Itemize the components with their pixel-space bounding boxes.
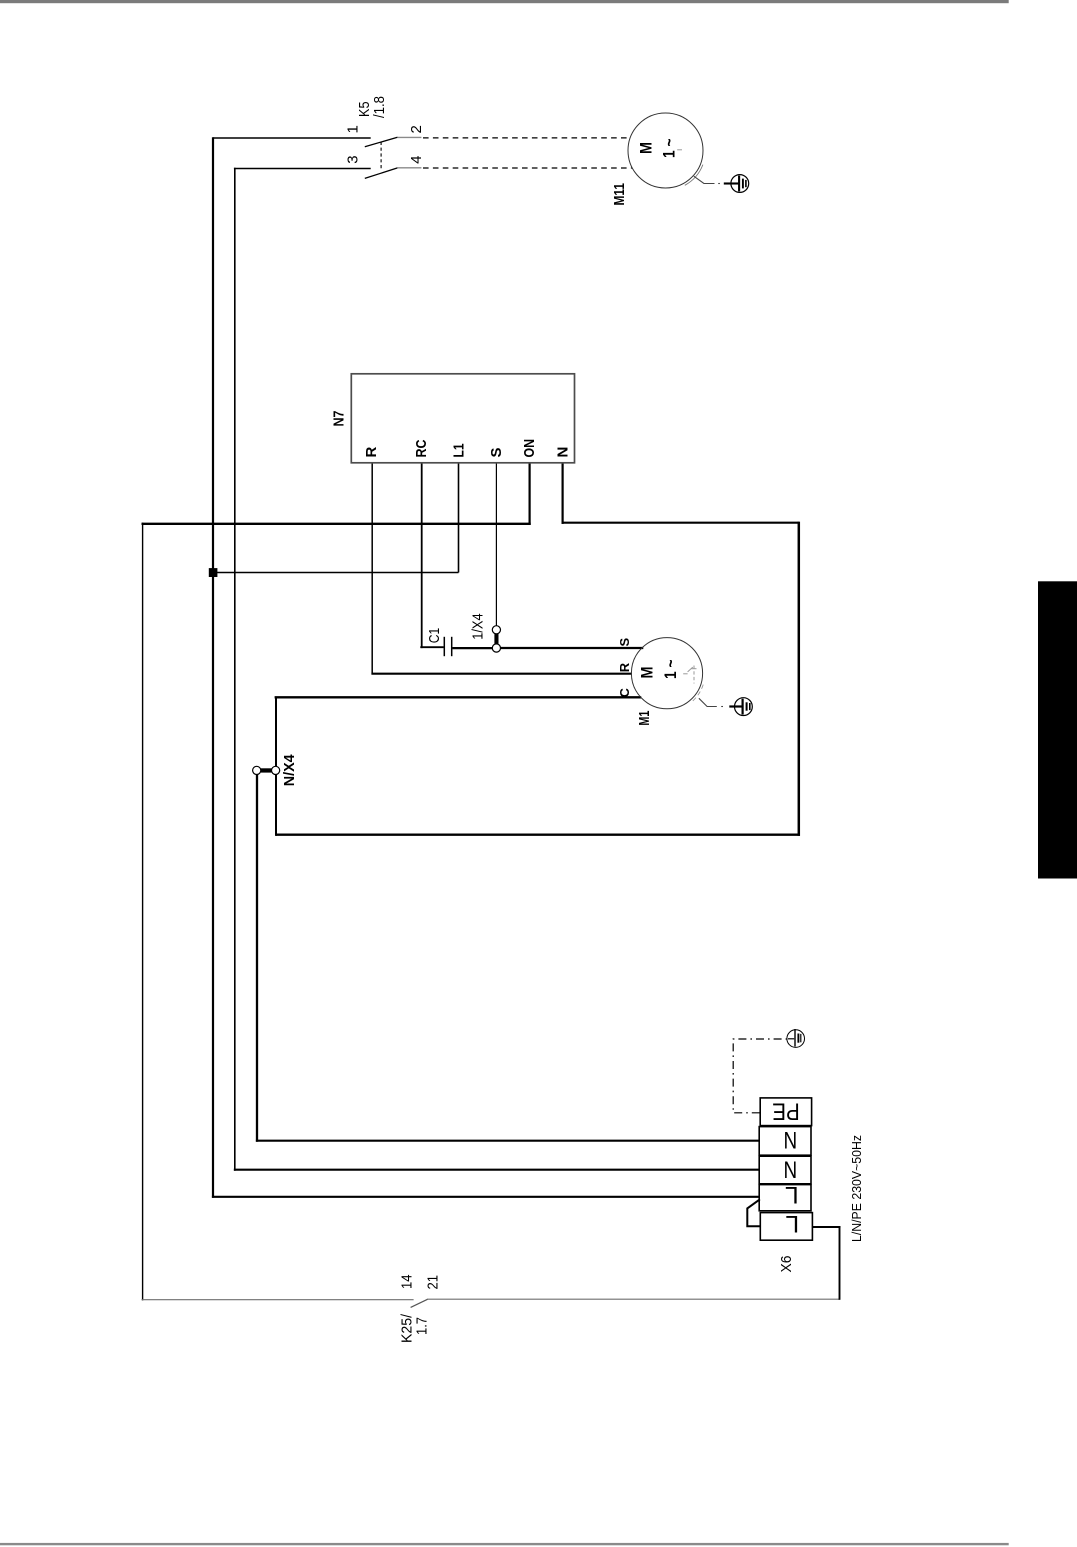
wire dashed K5-2 to M11 (423, 137, 628, 139)
svg-text:1/X4: 1/X4 (470, 613, 487, 640)
contact K5 1-2 (365, 137, 422, 146)
contact K25 blade (411, 1299, 428, 1307)
svg-text:N/X4: N/X4 (281, 754, 298, 787)
side tab marker (1038, 581, 1077, 878)
wire: N7 L1 branch (214, 464, 459, 573)
svg-text:1 ~: 1 ~ (660, 138, 679, 158)
terminal X6 L2 (760, 1213, 812, 1241)
wire: C1 to 1/X4 (452, 647, 492, 649)
contact K5 3-4 (365, 168, 422, 179)
terminal X6 N2 (759, 1156, 811, 1184)
motor M11 (628, 113, 703, 188)
box N7 (351, 374, 574, 463)
svg-text:S: S (617, 638, 632, 647)
svg-text:1.7: 1.7 (414, 1317, 431, 1335)
ground at M1 (699, 698, 752, 716)
K5 mechanical link (380, 142, 382, 171)
svg-text:C: C (617, 688, 632, 698)
svg-text:14: 14 (398, 1275, 415, 1290)
terminal X6 PE (760, 1098, 811, 1126)
jumper X6 L1-L2 (747, 1199, 760, 1226)
svg-text:N: N (784, 1155, 798, 1182)
wire dash-dot PE to ground (733, 1039, 787, 1113)
svg-text:X6: X6 (778, 1256, 795, 1273)
capacitor C1 (444, 637, 451, 656)
wire: N7 R pin to M1 R (371, 464, 632, 674)
svg-text:N7: N7 (331, 411, 348, 427)
svg-text:N: N (784, 1126, 798, 1153)
svg-text:M11: M11 (611, 183, 628, 206)
svg-text:ON: ON (521, 439, 538, 458)
connector N/X4 (253, 766, 280, 774)
svg-text:M: M (638, 667, 657, 679)
svg-text:4: 4 (408, 155, 425, 163)
svg-text:C1: C1 (426, 628, 443, 644)
wire: L net from K5 pin1 (212, 137, 760, 1198)
svg-text:21: 21 (425, 1275, 442, 1290)
svg-text:N: N (554, 447, 571, 458)
svg-text:3: 3 (344, 155, 361, 163)
svg-text:L/N/PE 230V~50Hz: L/N/PE 230V~50Hz (849, 1135, 864, 1242)
svg-text:R: R (363, 447, 380, 458)
svg-text:L1: L1 (450, 444, 467, 458)
svg-text:L: L (785, 1181, 799, 1208)
wire: 1/X4 to M1 S (500, 647, 643, 649)
svg-text:PE: PE (772, 1098, 800, 1125)
wire: N7 S pin to 1/X4 (495, 464, 497, 627)
terminal X6 L1 (759, 1185, 811, 1211)
wire: N7 N pin to M1 C (big loop) (275, 464, 800, 836)
terminal X6 N1 (759, 1127, 811, 1156)
ground at PE (787, 1029, 805, 1047)
ground at M11 (694, 175, 749, 193)
motor M1 (631, 638, 703, 709)
svg-text:L: L (785, 1210, 799, 1237)
wire: N/X4 to X6 N (256, 774, 760, 1142)
svg-text:1: 1 (344, 125, 361, 133)
connector 1/X4 (492, 626, 500, 652)
junction L1/L (209, 568, 218, 577)
svg-text:RC: RC (413, 439, 430, 457)
svg-text:R: R (617, 662, 632, 672)
wire: N net from K5 pin3 (234, 168, 760, 1171)
svg-text:S: S (488, 447, 505, 457)
svg-text:M: M (637, 142, 656, 154)
footer rule (0, 1543, 1009, 1545)
svg-text:M1: M1 (636, 711, 653, 726)
header rule (0, 0, 1009, 3)
wire dashed K5-4 to M11 (423, 167, 632, 169)
svg-text:/1.8: /1.8 (371, 96, 388, 118)
wire: N7 RC pin to C1 (420, 464, 443, 649)
svg-text:2: 2 (408, 125, 425, 133)
wire: ON pin to X6 L (outer loop) (142, 464, 841, 1301)
svg-text:1 ~: 1 ~ (661, 659, 680, 679)
